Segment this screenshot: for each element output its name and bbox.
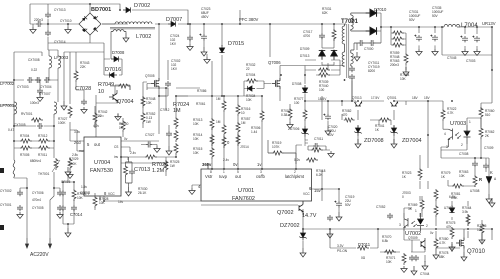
resistor R7057 [236,134,240,146]
svg-text:10K: 10K [146,101,153,105]
svg-text:0: 0 [402,195,404,199]
svg-text:1: 1 [223,170,225,174]
IC U7004 FAN7530 box [84,137,121,196]
capacitor C7035 electrolytic [430,35,438,42]
svg-text:L7002: L7002 [136,34,151,40]
svg-text:0.2v: 0.2v [294,158,300,162]
svg-text:U7001: U7001 [238,188,254,194]
wire T7001 primary top [345,23,347,25]
svg-text:450V: 450V [201,15,209,19]
svg-text:out: out [235,174,242,179]
svg-text:3.9k: 3.9k [462,210,468,214]
svg-text:100K: 100K [58,121,66,125]
ground C7019 arrow [336,212,342,221]
ground R7007 [287,122,293,129]
svg-text:2.4v: 2.4v [223,158,229,162]
T7001 aux winding [351,50,353,66]
ground C7031 [416,49,422,56]
svg-text:22: 22 [246,67,250,71]
diode D7012 [449,205,454,213]
ground C7012 arrow [166,146,172,155]
svg-text:1M: 1M [173,108,181,114]
transistor Q7002 [299,205,303,212]
svg-text:CY7002: CY7002 [0,189,12,193]
transistor Q7013 [355,102,362,106]
svg-text:Q7001: Q7001 [387,96,397,100]
capacitor C7019 electrolytic [334,201,342,208]
capacitor C7044b [413,255,419,261]
svg-text:510: 510 [485,113,491,117]
resistor R7062 [479,127,483,139]
capacitor CY7005 [57,205,63,211]
svg-text:10K: 10K [477,228,484,232]
svg-text:2: 2 [461,143,463,147]
ground R7078 arrow [433,250,439,259]
svg-text:C7013: C7013 [134,167,150,173]
resistor R7069 [420,199,424,211]
svg-text:R7012: R7012 [38,134,48,138]
capacitor C7020 electrolytic [323,114,331,121]
svg-text:15v: 15v [314,188,322,193]
svg-text:4.7K: 4.7K [439,241,446,245]
svg-text:Q7009: Q7009 [408,236,418,240]
svg-text:360v: 360v [202,162,212,167]
svg-text:3: 3 [260,170,262,174]
ground C7003 [474,49,480,56]
svg-text:CY7006: CY7006 [32,191,44,195]
svg-text:CY7004: CY7004 [40,85,52,89]
MOSFET Q7005 [151,78,159,89]
svg-text:4.7K: 4.7K [447,111,454,115]
svg-text:Q7013: Q7013 [352,96,362,100]
inductor LF7001 winding A [14,102,17,114]
svg-text:comp: comp [80,190,91,195]
MOSFET Q7010 [456,238,464,249]
resistor R7028b [72,189,76,201]
wire snubber top [322,24,334,48]
svg-text:10: 10 [98,89,104,95]
resistor R7063 [473,175,477,187]
svg-text:14.7V: 14.7V [302,213,317,219]
ground near divider [204,57,210,64]
ground C7035 [432,49,438,56]
svg-text:8200: 8200 [368,69,375,73]
terminal square bottom [0,225,4,230]
svg-text:3.3v: 3.3v [74,130,80,134]
capacitor C7031 electrolytic [414,35,422,42]
svg-text:inv: inv [114,155,118,159]
capacitor C7023 electrolytic [199,34,207,41]
svg-text:D7008: D7008 [292,82,302,86]
wire mid resistor ladders [176,61,262,169]
svg-text:C7052: C7052 [376,205,386,209]
svg-text:0v: 0v [124,137,128,141]
svg-text:68K: 68K [439,255,446,259]
svg-text:1: 1 [415,209,417,213]
wire rail to R7031 C7017 [322,24,334,70]
capacitor C7027 [146,142,152,148]
capacitor C7045 electrolytic [460,36,468,43]
ground C7044 arrow [411,266,417,275]
svg-text:UR13V: UR13V [482,21,496,26]
svg-text:C7000: C7000 [364,47,374,51]
svg-text:CX7005: CX7005 [14,123,26,127]
resistor R7034 [236,104,240,116]
svg-text:AC220V: AC220V [30,252,49,258]
resistor R7043 [74,70,78,82]
svg-text:10K: 10K [193,151,200,155]
snubber R7011b resistor [311,148,323,152]
capacitor CY7002 [17,190,23,196]
zener ZD7008 [354,125,361,136]
svg-text:D7016: D7016 [105,67,121,73]
ground ZD7004 arrow [391,139,397,148]
svg-text:107K: 107K [272,145,280,149]
capacitor C7008 [472,161,478,167]
wire TH bottom [14,172,60,238]
svg-text:3: 3 [399,223,401,227]
svg-text:0.47: 0.47 [8,128,14,132]
bridge rectifier BD7001 [79,13,101,35]
svg-text:10: 10 [241,111,245,115]
wire PS-ON resistor [330,229,378,248]
wire right feedback column [428,101,481,127]
ground Q7004 [115,114,121,121]
wire U7003 connections [441,27,492,158]
resistor R7019 [272,151,284,155]
KA431 U7008 [486,177,492,184]
resistor R7060 [479,107,483,119]
wire Q7013 Q7001 rail [358,101,428,143]
svg-text:18.5V: 18.5V [318,97,327,101]
svg-text:4: 4 [444,132,446,136]
resistor R7004 [20,139,32,143]
wire secondary output caps [419,27,477,49]
wire PFC out Q7005 [147,24,168,110]
wire cs/fb latch [262,96,322,164]
T7001 core [347,24,349,78]
svg-text:D7011: D7011 [358,242,371,247]
wire transformer secondary out [377,13,493,70]
snubber C7011 cap [313,143,319,149]
resistor R7005 [20,146,32,150]
svg-text:C7028: C7028 [75,86,91,92]
diode D7009 [319,50,326,59]
svg-text:C7012: C7012 [160,108,170,112]
wire D7015 down [221,24,223,96]
svg-text:50V: 50V [345,203,352,207]
svg-text:C7009: C7009 [484,146,494,150]
wire L7002 rail [102,23,115,25]
wire Q7005 source chain [143,82,159,134]
svg-text:680Kn4: 680Kn4 [30,159,41,163]
wire Q7006 SMPS area [244,24,345,101]
ground C7027 [154,146,160,153]
capacitor C7044a [409,255,415,261]
AC220V arrow right [48,238,51,248]
ground C7023 arrow [201,47,207,56]
wire PFC 380V rail [102,23,346,25]
inductor L7002 aux winding [111,30,126,32]
svg-text:10K: 10K [99,201,106,205]
svg-text:470: 470 [342,113,348,117]
svg-text:D7015: D7015 [228,41,244,47]
svg-text:U7012: U7012 [444,206,454,210]
capacitor C7003 [472,36,480,43]
resistor R7064 [466,214,470,226]
ground R7029 [67,172,73,179]
svg-text:1: 1 [469,120,471,124]
wire bridge top to top line [48,4,104,59]
ground Q7010 arrow [461,252,467,261]
svg-text:ZD7008: ZD7008 [364,138,384,144]
svg-text:BD7001: BD7001 [91,7,111,13]
transistor Q7001 [391,102,398,106]
svg-text:10K: 10K [459,174,466,178]
varistor RV7001 [31,118,43,122]
svg-text:100n3: 100n3 [30,101,39,105]
svg-text:1KV: 1KV [170,42,177,46]
svg-text:D7009: D7009 [300,47,310,51]
svg-text:D7002: D7002 [134,3,150,9]
capacitor C7013 [129,169,135,175]
diode D7002 [123,7,131,12]
resistor R7029 [68,158,72,170]
T7001 secondary winding [351,13,353,31]
inductor LF7001 winding B [54,102,57,114]
resistor R7071 [402,253,406,265]
wire Q7004 driver [96,85,130,137]
svg-text:R: R [479,177,482,182]
resistor R7042 [93,112,97,124]
svg-text:Q7010: Q7010 [467,249,486,255]
AC220V arrow left [25,238,28,248]
capacitor C7012 [166,131,172,137]
svg-text:22K: 22K [80,65,87,69]
resistor R7018 [306,158,318,162]
svg-text:R7011: R7011 [38,153,47,157]
wire D7002 to PFC rail [132,10,188,24]
resistor R7070 [384,250,396,254]
wire KA431 column [448,139,489,194]
ground Q7009 arrow [422,261,428,270]
svg-text:47K: 47K [446,225,453,229]
ground C7028 [81,107,87,114]
zener ZD7004 [390,125,397,136]
svg-text:Q7005: Q7005 [145,74,155,78]
resistor D7011 0ohm [357,246,369,250]
svg-text:R7061: R7061 [196,102,206,106]
svg-text:3.3V: 3.3V [337,244,344,248]
wire top AC line [30,4,120,27]
svg-text:cs/fb: cs/fb [256,174,266,179]
ground R7065 arrow [479,235,485,244]
svg-text:Q7004: Q7004 [117,99,134,105]
svg-text:15V: 15V [424,96,431,100]
svg-text:2.4v: 2.4v [130,151,136,155]
svg-text:ZD7006: ZD7006 [288,127,300,131]
resistor R7050 [121,120,125,132]
resistor R7030 [124,165,128,177]
svg-text:CY7001: CY7001 [0,203,12,207]
svg-text:6.2K: 6.2K [316,173,323,177]
svg-text:C7008: C7008 [459,152,469,156]
svg-text:1M: 1M [216,120,221,124]
inductor LF7003 winding A [49,56,52,68]
wire 15V right rail down [406,101,428,189]
svg-text:10K: 10K [246,98,253,102]
resistor R7025 [164,160,168,172]
wire C7024 C7023 branches [190,10,240,47]
resistor R7023 [418,168,422,180]
svg-text:R7086: R7086 [197,89,207,93]
resistor R7048 [141,96,145,108]
ground aux arrow [123,33,129,42]
T7001 primary lower winding [342,52,344,66]
zener DZ7002 [299,230,306,241]
resistor R7082 [344,118,355,122]
svg-text:6.8K: 6.8K [449,195,456,199]
svg-text:1W: 1W [146,120,151,124]
wire R7039 block [305,60,340,75]
capacitor C7014 [71,205,77,211]
resistor R7041 [379,118,391,122]
ground C7045 [462,49,468,56]
svg-text:CY7010: CY7010 [60,19,72,23]
resistor R7077 [303,109,307,121]
resistor R7015 [210,147,214,159]
svg-text:470n4: 470n4 [32,198,41,202]
svg-text:26.1K: 26.1K [138,191,147,195]
svg-text:ZD7004: ZD7004 [402,138,422,144]
resistor R7007 [288,108,292,120]
capacitor C7000 a [358,40,364,46]
diode D7016 bottom [110,72,118,77]
svg-text:0Ω: 0Ω [361,256,366,260]
resistor R7081a 1M [222,100,226,112]
ground DZ7002 arrow [300,248,306,257]
ground C7020 arrow [325,126,331,135]
wire filter rows [0,52,58,141]
capacitor CY7011 bold [349,66,355,72]
svg-text:Vstr: Vstr [205,174,213,179]
svg-text:50V: 50V [432,14,439,18]
diode D7007 [168,21,176,26]
svg-text:1.2M: 1.2M [152,168,165,174]
svg-text:latch/pkmt: latch/pkmt [285,174,305,179]
wire Q7009 [398,240,425,262]
svg-text:J7014: J7014 [240,145,249,149]
svg-text:62K: 62K [322,11,329,15]
wire aux to 18.5V [351,80,353,101]
capacitor CY7006 [57,190,63,196]
diode D7010 [366,9,377,17]
terminal square top [0,168,4,173]
resistor R7052 [141,112,145,124]
ground C7024 [187,44,193,51]
opto U7003 [448,125,470,147]
capacitor CY7013 [45,12,51,18]
wire U7004 area verticals [64,52,104,151]
ground C7000 arrow [354,52,360,61]
resistor R7080 [434,205,438,217]
wire left AC verticals [48,43,58,80]
svg-text:CY7013: CY7013 [54,8,66,12]
svg-text:50V: 50V [409,18,416,22]
capacitor C7015 lower [60,205,66,211]
svg-text:D7007: D7007 [166,17,182,23]
ground ZD7008 arrow [355,139,361,148]
resistor R7016 [236,122,240,134]
capacitor C7015 [60,190,66,196]
wire output lower loop [442,27,492,55]
resistor R7032 [246,79,258,83]
svg-text:4.2v: 4.2v [93,124,99,128]
resistor R7078 [434,238,438,250]
svg-text:10K: 10K [400,77,407,81]
svg-text:220n3: 220n3 [34,18,43,22]
svg-text:3: 3 [446,145,448,149]
svg-text:U7003: U7003 [450,121,466,127]
svg-text:RV7001: RV7001 [21,112,33,116]
svg-text:1.5v: 1.5v [81,185,87,189]
wire aux to D7008 [111,32,126,60]
inductor L7004 [444,24,460,27]
svg-text:1KV: 1KV [171,67,178,71]
ground arrow C7014 [65,228,71,237]
resistor R7039 [318,68,330,72]
ground col A arrow [63,100,65,102]
ground top right arrow [489,198,495,207]
svg-text:500K: 500K [69,162,77,166]
ground C7011 [328,151,334,158]
svg-text:1.44: 1.44 [251,130,257,134]
svg-text:1M: 1M [216,97,221,101]
ground CY7010 [65,27,71,34]
diode D7015 [219,45,224,53]
svg-text:DZ7002: DZ7002 [280,223,300,229]
svg-text:100: 100 [294,101,300,105]
capacitor C7052 [387,213,393,219]
MOSFET Q7006 [272,78,280,89]
wire C7015 cluster [63,176,74,228]
svg-text:D7004: D7004 [246,73,256,77]
capacitor CY7001 [17,205,23,211]
svg-text:D7010: D7010 [374,7,387,12]
resistor R7061h [452,184,464,188]
svg-text:17.5V: 17.5V [371,96,380,100]
capacitor CY7003 [35,77,41,83]
svg-text:22: 22 [98,114,102,118]
IC U7001 FAN7602 box [201,169,312,201]
svg-text:LF7003: LF7003 [54,55,69,60]
svg-text:2: 2 [426,224,428,228]
svg-text:0.38: 0.38 [281,113,287,117]
svg-text:FAN7602: FAN7602 [232,196,255,202]
wire U7001 pins top [208,158,296,169]
capacitor C7002 [165,81,171,87]
svg-text:C7044: C7044 [420,272,430,276]
wire X cap row [14,118,54,126]
resistor R7079 [434,189,438,201]
svg-text:C7027: C7027 [145,133,155,137]
resistor R7006 [260,110,264,122]
wire U7004 right pins [121,141,166,168]
resistor R7048s [392,37,404,41]
T7001 primary winding [342,24,344,52]
wire bottom Q7002 row [201,201,492,248]
svg-text:C7045: C7045 [447,56,457,60]
